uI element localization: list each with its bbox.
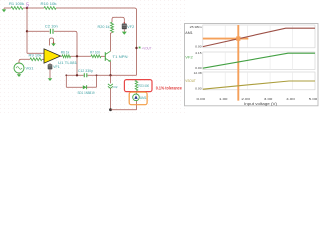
wire T1 emitter down	[110, 62, 112, 76]
svg-text:1.00: 1.00	[219, 97, 228, 101]
wire SD1 right	[87, 86, 97, 88]
wire probe VF1 down	[49, 69, 51, 77]
wire C2 to corner + down to R6/R7 node	[54, 31, 77, 75]
svg-text:5.00: 5.00	[309, 97, 318, 101]
chart x tick labels	[197, 97, 318, 101]
svg-text:0.00: 0.00	[195, 87, 202, 91]
svg-text:0.1% tolerance: 0.1% tolerance	[156, 86, 182, 91]
svg-text:T1 NPN: T1 NPN	[113, 55, 129, 59]
bottom rail wire	[111, 109, 137, 111]
svg-text:C2 10n: C2 10n	[45, 25, 58, 29]
op-amp U1	[44, 49, 77, 65]
resistor R23	[135, 80, 149, 90]
chart cursor vertical	[237, 25, 239, 101]
emitter node horizontal wire right	[87, 74, 136, 76]
svg-text:4.15: 4.15	[195, 51, 202, 55]
wire emitter node down	[110, 75, 112, 83]
wire VG1 to R9	[19, 59, 30, 63]
svg-text:R10 10k: R10 10k	[41, 2, 57, 6]
node 5 junction	[26, 7, 28, 9]
chart cursor horizontal	[203, 38, 249, 40]
wire R9 to op-amp noninverting input	[42, 58, 44, 60]
wire node5 down	[26, 8, 28, 53]
bottom rail corner dot	[109, 108, 112, 111]
junction pair left	[65, 74, 67, 76]
svg-text:VF2: VF2	[185, 56, 193, 60]
wire op-amp power hook	[50, 38, 54, 46]
svg-text:0.00: 0.00	[197, 97, 206, 101]
svg-text:AM1: AM1	[185, 31, 193, 35]
chart axes frames	[203, 25, 315, 90]
resistor R6	[61, 50, 71, 57]
net flag 5	[26, 3, 29, 9]
chart y tick labels	[190, 25, 203, 90]
tolerance annotation box	[124, 80, 152, 92]
svg-text:D2: D2	[114, 85, 118, 89]
wire op-amp output	[61, 55, 63, 57]
chart cursor cross marker	[236, 36, 240, 40]
svg-text:+VOUT: +VOUT	[142, 46, 153, 50]
resistor R7	[90, 50, 101, 57]
svg-text:R6 1k: R6 1k	[61, 50, 70, 54]
wire probe VF2 down	[123, 29, 125, 31]
svg-text:R7 100: R7 100	[90, 50, 100, 54]
svg-text:4.00: 4.00	[286, 97, 295, 101]
wire node5 to R10	[27, 7, 44, 9]
probe VF2 pin dot	[124, 22, 125, 23]
svg-text:AM1: AM1	[140, 96, 147, 100]
chart panel	[185, 24, 319, 106]
emitter node horizontal wire	[66, 74, 83, 76]
svg-text:Input voltage (V): Input voltage (V)	[244, 102, 277, 106]
wire R6 to R7	[71, 55, 92, 57]
svg-text:U1 TL081: U1 TL081	[58, 61, 77, 65]
ground (left of R1)	[2, 8, 7, 12]
node +VOUT junction	[135, 47, 137, 49]
transistor T1	[105, 51, 128, 61]
svg-text:VF2: VF2	[127, 25, 134, 29]
chart trace AM1	[203, 28, 315, 46]
wire R23 to AM1	[136, 91, 138, 95]
svg-text:R23 400: R23 400	[139, 84, 150, 88]
wire hook R20 to probe VF2	[112, 17, 124, 22]
svg-text:0.00: 0.00	[195, 66, 202, 70]
svg-text:VSOUT: VSOUT	[185, 79, 196, 83]
svg-text:R9 10k: R9 10k	[29, 53, 42, 57]
wire T1 collector up	[111, 33, 113, 52]
diode SD1	[78, 85, 95, 95]
wire op-amp to probe VF1	[49, 63, 51, 64]
svg-text:VG1: VG1	[26, 67, 34, 71]
svg-text:R1 100k: R1 100k	[9, 2, 24, 6]
svg-text:0.00: 0.00	[195, 45, 202, 49]
wire into op-amp inverting input	[27, 52, 44, 54]
ground arrow on op-amp supply	[51, 43, 56, 46]
capacitor C2	[45, 25, 58, 34]
junction pair right	[96, 74, 98, 76]
wire top rail left	[4, 7, 11, 9]
wire rail up to ammeter	[136, 101, 138, 110]
wire D2 down to rail	[110, 89, 112, 110]
probe VF1	[48, 64, 60, 69]
svg-text:SD1 1N5819: SD1 1N5819	[78, 91, 95, 95]
probe VF2	[122, 24, 135, 30]
op-amp power pin dot	[53, 42, 54, 43]
svg-text:12.38: 12.38	[194, 71, 202, 75]
wire R7 to T1 base	[101, 55, 105, 57]
wire top rail right + corner down	[56, 8, 137, 75]
junction at emitter	[109, 74, 111, 76]
svg-text:3.00: 3.00	[264, 97, 273, 101]
svg-text:C12 330p: C12 330p	[78, 69, 93, 73]
svg-text:25.98m: 25.98m	[190, 25, 203, 29]
resistor R20	[98, 22, 114, 32]
net pin marker	[139, 47, 141, 49]
ground under probe VF2	[122, 32, 127, 35]
junction feedback node	[76, 55, 78, 57]
svg-text:VF1: VF1	[53, 65, 60, 69]
ammeter annotation box	[129, 92, 147, 105]
resistor R1	[9, 2, 24, 9]
junction at x77	[76, 74, 78, 76]
wire pair right bar	[96, 75, 98, 87]
capacitor C12	[78, 69, 93, 77]
chart trace VF2	[203, 53, 315, 68]
ground under VG1	[17, 73, 22, 77]
wire to C2	[27, 30, 49, 32]
ground under probe VF1	[48, 77, 53, 81]
diode D2 (double chevron)	[108, 84, 118, 89]
wire pair left bar	[65, 75, 67, 87]
svg-text:R20 1k: R20 1k	[98, 25, 110, 29]
resistor R9	[29, 53, 43, 60]
svg-text:2.00: 2.00	[241, 97, 250, 101]
wire R1 to node 5	[23, 7, 27, 9]
source VG1	[14, 63, 34, 73]
junction at C2 branch	[26, 30, 28, 32]
resistor R10	[41, 2, 57, 9]
ammeter AM1	[133, 94, 147, 101]
wire SD1 left	[66, 86, 83, 88]
chart trace VSOUT	[203, 81, 315, 89]
